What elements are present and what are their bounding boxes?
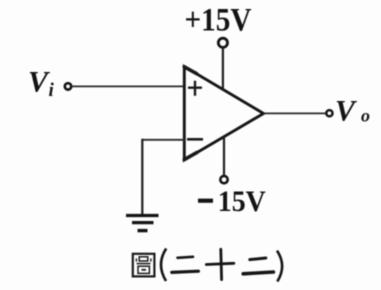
caption: character 圖 <box>133 254 155 277</box>
label Vi <box>28 66 55 102</box>
op-amp - input symbol <box>187 138 203 141</box>
svg-text:+15V: +15V <box>185 3 252 39</box>
terminal Vi <box>65 83 71 89</box>
wire Vi to op-amp noninverting input <box>72 85 185 87</box>
svg-text:V: V <box>335 95 358 128</box>
caption: character 十 <box>206 249 234 279</box>
caption: character 二 (first) <box>172 257 199 273</box>
caption: close parenthesis <box>277 251 282 282</box>
svg-text:i: i <box>49 80 55 101</box>
wire inverting input <box>142 139 184 141</box>
caption: character 二 (second) <box>243 258 273 274</box>
wire +15V to op-amp top <box>222 48 224 91</box>
terminal +15V <box>218 38 227 47</box>
op-amp corner mark bottom-left <box>184 152 197 159</box>
label -15V <box>198 185 266 218</box>
label Vo <box>335 95 370 128</box>
op-amp U1 <box>184 67 263 161</box>
wire op-amp bottom to -15V terminal <box>223 137 225 176</box>
svg-text:15V: 15V <box>218 185 266 218</box>
terminal -15V <box>220 176 227 183</box>
svg-text:o: o <box>361 106 370 126</box>
op-amp + input symbol <box>188 81 202 96</box>
caption: open parenthesis <box>161 249 166 282</box>
terminal Vo <box>326 110 332 116</box>
ground <box>126 216 159 231</box>
wire to ground <box>141 139 143 215</box>
op-amp corner mark top-left <box>184 67 196 74</box>
wire op-amp output <box>264 112 326 114</box>
